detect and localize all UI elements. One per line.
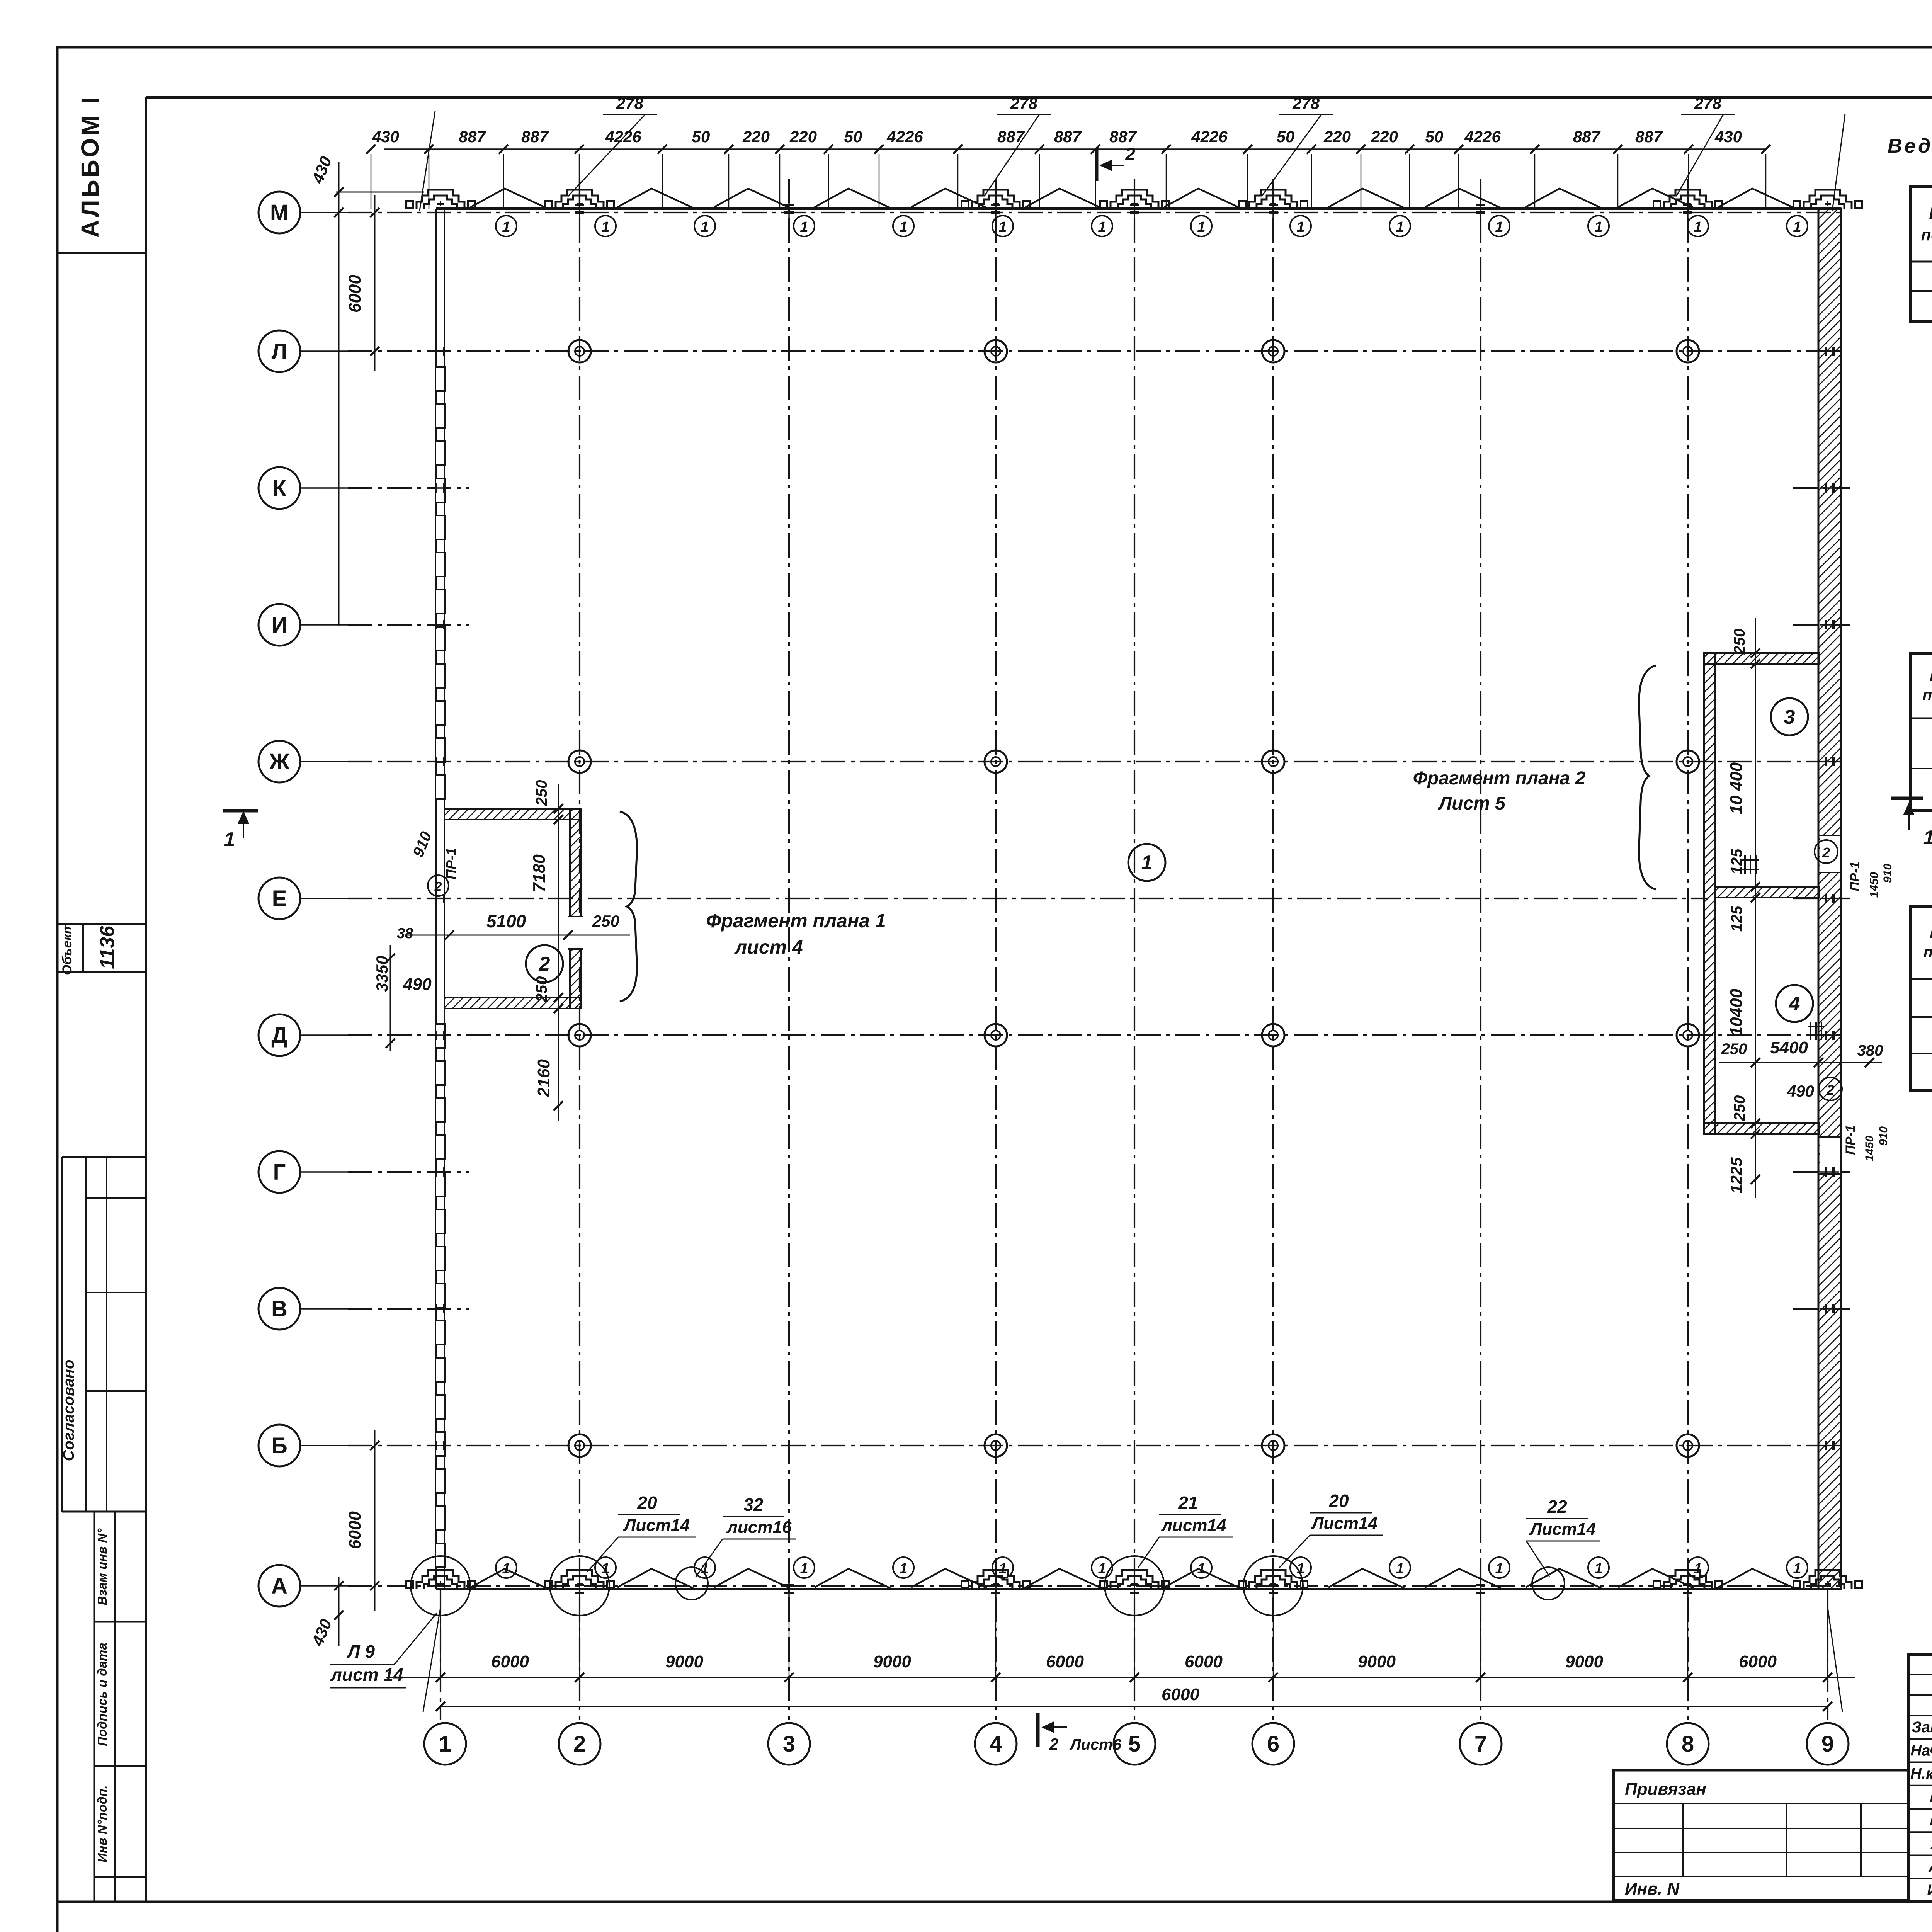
top dimension line bbox=[384, 148, 1766, 150]
room 3 mark bbox=[1771, 698, 1808, 735]
svg-text:1: 1 bbox=[1197, 1561, 1205, 1577]
axis Л line bbox=[300, 350, 348, 352]
svg-text:позиции: позиции bbox=[1923, 944, 1932, 961]
axis Д circle bbox=[259, 1014, 300, 1056]
bottom overall dimension bbox=[440, 1706, 1828, 1707]
sheet border bottom bbox=[57, 1901, 1932, 1903]
svg-text:1: 1 bbox=[224, 828, 235, 851]
right wall hatched bbox=[1818, 209, 1841, 1589]
svg-text:7180: 7180 bbox=[530, 854, 549, 892]
svg-text:887: 887 bbox=[459, 128, 486, 146]
svg-text:Г: Г bbox=[273, 1160, 286, 1185]
axis И circle bbox=[259, 604, 300, 646]
corner witness right bbox=[1832, 114, 1845, 211]
room 2 mark bbox=[526, 945, 563, 982]
column 6Ж bbox=[1262, 750, 1284, 773]
svg-text:Подпись и дата: Подпись и дата bbox=[95, 1643, 109, 1746]
svg-text:7: 7 bbox=[1475, 1731, 1487, 1757]
svg-text:лист16: лист16 bbox=[726, 1518, 792, 1537]
svg-text:20: 20 bbox=[637, 1493, 657, 1513]
column 6Д bbox=[1262, 1024, 1284, 1046]
svg-text:430: 430 bbox=[372, 128, 399, 146]
gate at column 4 bottom bbox=[972, 1570, 1020, 1589]
svg-text:4226: 4226 bbox=[886, 128, 923, 146]
svg-text:9000: 9000 bbox=[665, 1652, 703, 1671]
axis 2 circle bbox=[559, 1723, 600, 1765]
fragment 1 brace bbox=[620, 811, 637, 1002]
svg-text:220: 220 bbox=[789, 128, 817, 146]
svg-text:1: 1 bbox=[1098, 219, 1106, 235]
opening mark 1 bottom bbox=[1588, 1557, 1609, 1578]
section mark 1 right bbox=[1891, 797, 1923, 800]
room 2 walls bbox=[444, 809, 581, 820]
svg-text:ПР-1: ПР-1 bbox=[1848, 861, 1862, 891]
svg-text:50: 50 bbox=[1277, 128, 1295, 146]
axis Л circle bbox=[259, 330, 300, 372]
column 2Л bbox=[568, 340, 591, 362]
svg-text:И: И bbox=[271, 612, 287, 638]
svg-text:6000: 6000 bbox=[345, 275, 364, 313]
svg-text:278: 278 bbox=[1292, 94, 1320, 112]
svg-text:4226: 4226 bbox=[605, 128, 641, 146]
album box bbox=[57, 252, 146, 254]
sheet border top bbox=[57, 46, 1932, 49]
opening mark 1 bottom bbox=[1389, 1557, 1410, 1578]
room2 dim horizontal bbox=[406, 935, 630, 936]
top wall bbox=[436, 207, 1841, 210]
axis 8 circle bbox=[1667, 1723, 1709, 1765]
rooms 3-4 outer walls bbox=[1704, 653, 1715, 1134]
svg-text:38: 38 bbox=[397, 925, 413, 942]
gate at column 1 bottom bbox=[417, 1570, 464, 1589]
svg-text:Арх: Арх bbox=[1930, 1835, 1932, 1852]
svg-text:1: 1 bbox=[601, 1561, 609, 1577]
svg-text:1: 1 bbox=[439, 1731, 451, 1757]
svg-text:ПР-1: ПР-1 bbox=[443, 848, 459, 879]
svg-text:5: 5 bbox=[1128, 1731, 1141, 1757]
opening mark 1 top bbox=[1290, 216, 1311, 236]
svg-text:1: 1 bbox=[1793, 1561, 1801, 1577]
svg-text:ПР-1: ПР-1 bbox=[1843, 1125, 1858, 1155]
left dim 430 bottom bbox=[338, 1577, 340, 1646]
svg-text:10400: 10400 bbox=[1727, 988, 1746, 1036]
svg-text:Н.контр.: Н.контр. bbox=[1910, 1765, 1932, 1782]
svg-text:250: 250 bbox=[1731, 629, 1748, 655]
svg-text:380: 380 bbox=[1857, 1042, 1883, 1059]
title block main box bbox=[1909, 1654, 1932, 1902]
svg-text:Арх.: Арх. bbox=[1928, 1859, 1932, 1876]
svg-text:позиции: позиции bbox=[1923, 687, 1932, 704]
opening mark 1 bottom bbox=[595, 1557, 616, 1578]
svg-text:6000: 6000 bbox=[1046, 1652, 1084, 1671]
gate at column 2 bottom bbox=[556, 1570, 604, 1589]
svg-text:1: 1 bbox=[1396, 1561, 1404, 1577]
opening mark 1 top bbox=[1389, 216, 1410, 236]
svg-text:Объект: Объект bbox=[60, 922, 75, 975]
svg-text:1: 1 bbox=[1594, 219, 1602, 235]
svg-text:1: 1 bbox=[1594, 1561, 1602, 1577]
svg-text:220: 220 bbox=[1371, 128, 1398, 146]
opening mark 1 top bbox=[1092, 216, 1112, 236]
svg-text:1: 1 bbox=[998, 1561, 1007, 1577]
axis Г circle bbox=[259, 1151, 300, 1193]
svg-text:1136: 1136 bbox=[96, 925, 119, 969]
svg-text:9: 9 bbox=[1821, 1731, 1834, 1757]
axis В circle bbox=[259, 1288, 300, 1330]
axis Б line bbox=[300, 1445, 348, 1446]
svg-text:887: 887 bbox=[1573, 128, 1601, 146]
bottom wall bbox=[436, 1588, 1841, 1590]
svg-text:32: 32 bbox=[743, 1495, 764, 1515]
svg-text:250: 250 bbox=[533, 976, 550, 1003]
room 2 door opening bbox=[568, 917, 583, 949]
svg-text:Инв. N: Инв. N bbox=[1625, 1879, 1680, 1898]
column 4Ж bbox=[985, 750, 1007, 773]
axis 5 circle bbox=[1114, 1723, 1155, 1765]
annex box bbox=[1614, 1770, 1909, 1900]
section mark 2 top bbox=[1095, 148, 1099, 181]
axis E extended line bbox=[469, 898, 1708, 899]
svg-text:2: 2 bbox=[539, 953, 550, 975]
svg-text:278: 278 bbox=[1010, 94, 1038, 112]
column 2Д bbox=[568, 1024, 591, 1046]
svg-text:887: 887 bbox=[521, 128, 549, 146]
axis Е circle bbox=[259, 878, 300, 919]
svg-text:250: 250 bbox=[1731, 1095, 1748, 1122]
rooms 3-4 partition wall bbox=[1715, 887, 1819, 898]
opening mark 1 bottom bbox=[1191, 1557, 1212, 1578]
svg-text:Лист6: Лист6 bbox=[1069, 1736, 1122, 1753]
svg-text:1: 1 bbox=[1296, 219, 1304, 235]
svg-text:887: 887 bbox=[1054, 128, 1082, 146]
top wall door leaves bbox=[471, 189, 546, 208]
svg-text:Лист14: Лист14 bbox=[1529, 1520, 1596, 1539]
svg-text:А: А bbox=[271, 1573, 287, 1599]
svg-text:Фрагмент плана 1: Фрагмент плана 1 bbox=[706, 910, 886, 932]
opening mark 1 top bbox=[893, 216, 914, 236]
svg-text:2: 2 bbox=[1125, 144, 1135, 164]
svg-text:50: 50 bbox=[1425, 128, 1444, 146]
axis 3 circle bbox=[768, 1723, 810, 1765]
opening mark 1 top bbox=[794, 216, 815, 236]
approvals table bbox=[62, 1156, 146, 1158]
svg-text:1450: 1450 bbox=[1863, 1135, 1876, 1161]
svg-text:1: 1 bbox=[1495, 1561, 1503, 1577]
lintel tie symbols bbox=[1742, 859, 1759, 861]
svg-text:1: 1 bbox=[1396, 219, 1404, 235]
svg-text:1: 1 bbox=[1694, 1561, 1702, 1577]
svg-text:1225: 1225 bbox=[1727, 1157, 1745, 1194]
svg-text:1: 1 bbox=[601, 219, 609, 235]
left dim 430 top bbox=[338, 162, 340, 626]
opening mark 1 top bbox=[1588, 216, 1609, 236]
opening mark 1 bottom bbox=[992, 1557, 1013, 1578]
svg-text:910: 910 bbox=[1881, 864, 1894, 883]
bottom witness slants bbox=[423, 1607, 440, 1712]
gate at column 6 bottom bbox=[1249, 1570, 1297, 1589]
svg-text:21: 21 bbox=[1178, 1493, 1198, 1513]
svg-text:220: 220 bbox=[742, 128, 770, 146]
gate at column 5 top bbox=[1111, 190, 1158, 209]
gate at column 8 bottom bbox=[1664, 1570, 1712, 1589]
gate at column 9 top bbox=[1804, 190, 1852, 209]
svg-text:К: К bbox=[272, 476, 286, 501]
gate at column 4 top bbox=[972, 190, 1020, 209]
svg-text:6000: 6000 bbox=[1185, 1652, 1223, 1671]
column 4Б bbox=[985, 1434, 1007, 1457]
svg-text:ГАП: ГАП bbox=[1930, 1812, 1932, 1829]
svg-text:2: 2 bbox=[1826, 1082, 1834, 1098]
column 6Л bbox=[1262, 340, 1284, 362]
svg-text:1: 1 bbox=[800, 1561, 808, 1577]
svg-text:В: В bbox=[271, 1296, 287, 1321]
column 4Л bbox=[985, 340, 1007, 362]
svg-text:Д: Д bbox=[271, 1023, 287, 1048]
svg-text:1: 1 bbox=[800, 219, 808, 235]
left wall bbox=[435, 209, 437, 1589]
svg-text:9000: 9000 bbox=[1565, 1652, 1603, 1671]
sheet border left bbox=[56, 46, 59, 1932]
svg-text:1: 1 bbox=[701, 219, 709, 235]
axis 9 circle bbox=[1807, 1723, 1849, 1765]
stamp side labels box bbox=[94, 1512, 95, 1902]
svg-text:1: 1 bbox=[998, 219, 1007, 235]
svg-text:430: 430 bbox=[1714, 128, 1742, 146]
svg-text:1: 1 bbox=[1793, 219, 1801, 235]
svg-text:Ведомость проемов ворот и двер: Ведомость проемов ворот и дверей bbox=[1888, 135, 1932, 157]
rooms34 dim horizontal bbox=[1719, 1062, 1882, 1063]
svg-text:Привязан: Привязан bbox=[1625, 1780, 1706, 1799]
svg-text:4: 4 bbox=[1789, 993, 1800, 1015]
left wall panels bbox=[435, 367, 445, 391]
svg-text:лист 4: лист 4 bbox=[734, 936, 803, 958]
opening mark 1 top bbox=[1191, 216, 1212, 236]
svg-text:8: 8 bbox=[1682, 1731, 1694, 1757]
svg-text:1: 1 bbox=[1197, 219, 1205, 235]
svg-text:Марка: Марка bbox=[1929, 203, 1932, 223]
svg-text:490: 490 bbox=[1787, 1082, 1814, 1100]
door mark 2 right bottom bbox=[1819, 1077, 1842, 1100]
svg-text:6000: 6000 bbox=[491, 1652, 529, 1671]
room 1 mark bbox=[1128, 844, 1165, 881]
section mark 2 bottom bbox=[1036, 1713, 1040, 1747]
gate at column 5 bottom bbox=[1111, 1570, 1158, 1589]
opening mark 1 bottom bbox=[794, 1557, 815, 1578]
svg-text:1: 1 bbox=[502, 219, 510, 235]
corner witness left bbox=[420, 111, 435, 211]
svg-text:Б: Б bbox=[271, 1433, 287, 1458]
svg-text:6000: 6000 bbox=[1162, 1685, 1199, 1704]
axis Д line bbox=[300, 1034, 348, 1036]
svg-text:1: 1 bbox=[1141, 852, 1153, 874]
svg-text:1: 1 bbox=[502, 1561, 510, 1577]
bottom dimension line segments bbox=[386, 1677, 1855, 1678]
svg-text:Л: Л bbox=[272, 339, 287, 364]
svg-text:2: 2 bbox=[1822, 845, 1830, 861]
svg-text:1: 1 bbox=[1495, 219, 1503, 235]
column 8Ж bbox=[1677, 750, 1699, 773]
title block thin rows bbox=[1909, 1674, 1932, 1675]
column 2Б bbox=[568, 1434, 591, 1457]
title block name rows bbox=[1909, 1738, 1932, 1740]
opening mark 1 top bbox=[1787, 216, 1808, 236]
svg-text:6: 6 bbox=[1267, 1731, 1279, 1757]
axis А line bbox=[300, 1585, 348, 1587]
room2 dim vertical line bbox=[558, 784, 559, 1121]
right wall door opening 2 bbox=[1820, 1137, 1840, 1174]
room 4 mark bbox=[1776, 985, 1813, 1022]
opening mark 1 bottom bbox=[893, 1557, 914, 1578]
axis 4 circle bbox=[975, 1723, 1017, 1765]
axis Ж circle bbox=[259, 741, 300, 782]
column 8Б bbox=[1677, 1434, 1699, 1457]
opening mark 1 bottom bbox=[1687, 1557, 1708, 1578]
svg-text:125: 125 bbox=[1728, 906, 1745, 932]
axis Б circle bbox=[259, 1425, 300, 1466]
svg-text:6000: 6000 bbox=[1739, 1652, 1777, 1671]
svg-text:2160: 2160 bbox=[534, 1059, 553, 1097]
column 8Л bbox=[1677, 340, 1699, 362]
section mark 1 left bbox=[223, 809, 258, 813]
axis Е line bbox=[300, 898, 348, 899]
svg-text:лист 14: лист 14 bbox=[330, 1665, 403, 1685]
svg-text:Марка: Марка bbox=[1930, 666, 1932, 685]
svg-text:АЛЬБОМ I: АЛЬБОМ I bbox=[76, 95, 104, 238]
rooms 3-4 bottom wall bbox=[1704, 1123, 1819, 1134]
svg-text:ГАП: ГАП bbox=[1930, 1789, 1932, 1806]
gate at column 9 bottom bbox=[1804, 1570, 1852, 1589]
svg-text:Инв N°подп.: Инв N°подп. bbox=[95, 1785, 109, 1862]
bottom wall door leaves bbox=[471, 1569, 546, 1588]
opening mark 1 bottom bbox=[694, 1557, 715, 1578]
gate at column 1 top bbox=[417, 190, 464, 209]
svg-text:4: 4 bbox=[990, 1731, 1002, 1757]
svg-text:Е: Е bbox=[272, 886, 287, 911]
right wall door opening 1 bbox=[1820, 835, 1840, 872]
svg-text:Взам инв N°: Взам инв N° bbox=[95, 1528, 109, 1605]
opening mark 1 top bbox=[694, 216, 715, 236]
column 1 axis stub bbox=[440, 1589, 441, 1720]
svg-text:1: 1 bbox=[1694, 219, 1702, 235]
axis Г line bbox=[300, 1171, 348, 1173]
svg-text:Марка: Марка bbox=[1930, 923, 1932, 942]
left dim 6000 top bbox=[374, 195, 376, 371]
svg-text:887: 887 bbox=[1635, 128, 1663, 146]
svg-text:Лист14: Лист14 bbox=[623, 1516, 690, 1535]
svg-text:3: 3 bbox=[1784, 706, 1795, 728]
axis М circle bbox=[259, 192, 300, 233]
gate at column 6 top bbox=[1249, 190, 1297, 209]
svg-text:9000: 9000 bbox=[873, 1652, 911, 1671]
inner frame left bbox=[145, 97, 147, 1902]
svg-text:20: 20 bbox=[1328, 1491, 1349, 1511]
svg-text:125: 125 bbox=[1728, 849, 1745, 874]
opening mark 1 bottom bbox=[1489, 1557, 1510, 1578]
axis 6 circle bbox=[1252, 1723, 1294, 1765]
svg-text:Фрагмент плана 2: Фрагмент плана 2 bbox=[1413, 768, 1586, 789]
column 9 axis stub bbox=[1827, 1589, 1828, 1720]
svg-text:910: 910 bbox=[1877, 1126, 1890, 1146]
small detail circle left bbox=[675, 1567, 708, 1600]
svg-text:Согласовано: Согласовано bbox=[60, 1360, 77, 1461]
svg-text:лист14: лист14 bbox=[1161, 1516, 1226, 1535]
table 4 box bbox=[1911, 907, 1932, 1091]
axis К line bbox=[300, 487, 348, 489]
opening mark 1 bottom bbox=[1787, 1557, 1808, 1578]
svg-text:887: 887 bbox=[1109, 128, 1137, 146]
svg-text:2: 2 bbox=[1049, 1735, 1058, 1753]
svg-text:1: 1 bbox=[1098, 1561, 1106, 1577]
small detail circle right bbox=[1532, 1567, 1565, 1600]
column axis lines bbox=[579, 179, 580, 1720]
door mark 2 small left bbox=[428, 875, 449, 896]
svg-text:4226: 4226 bbox=[1191, 128, 1228, 146]
opening mark 1 top bbox=[595, 216, 616, 236]
svg-text:5100: 5100 bbox=[486, 911, 526, 931]
svg-text:490: 490 bbox=[403, 975, 432, 994]
column 6Б bbox=[1262, 1434, 1284, 1457]
opening mark 1 top bbox=[992, 216, 1013, 236]
gate at column 8 top bbox=[1664, 190, 1712, 209]
axis К circle bbox=[259, 467, 300, 509]
svg-text:позиции: позиции bbox=[1921, 226, 1932, 244]
opening mark 1 top bbox=[496, 216, 517, 236]
object box bbox=[57, 923, 146, 925]
gate at column 2 top bbox=[556, 190, 604, 209]
svg-text:278: 278 bbox=[616, 94, 644, 112]
svg-text:Л 9: Л 9 bbox=[347, 1641, 375, 1662]
axis 7 circle bbox=[1460, 1723, 1502, 1765]
opening mark 1 bottom bbox=[1092, 1557, 1112, 1578]
svg-text:1: 1 bbox=[899, 1561, 907, 1577]
svg-text:Инж.: Инж. bbox=[1927, 1882, 1932, 1899]
table 1 box bbox=[1911, 186, 1932, 322]
svg-text:2: 2 bbox=[434, 879, 442, 894]
svg-text:50: 50 bbox=[844, 128, 862, 146]
axis Ж line bbox=[300, 761, 348, 762]
opening mark 1 bottom bbox=[1290, 1557, 1311, 1578]
svg-text:М: М bbox=[270, 200, 289, 225]
door mark 2 right top bbox=[1815, 840, 1838, 863]
svg-text:1: 1 bbox=[899, 219, 907, 235]
inner frame top bbox=[146, 96, 1932, 99]
column 4Д bbox=[985, 1024, 1007, 1046]
svg-text:1: 1 bbox=[1923, 827, 1932, 849]
axis М line bbox=[300, 212, 348, 213]
svg-text:10 400: 10 400 bbox=[1727, 762, 1746, 814]
opening mark 1 bottom bbox=[496, 1557, 517, 1578]
svg-text:4226: 4226 bbox=[1464, 128, 1501, 146]
fragment 2 brace bbox=[1639, 665, 1656, 889]
svg-text:1450: 1450 bbox=[1868, 872, 1881, 898]
axis-wall tie marks bbox=[431, 350, 449, 352]
svg-text:50: 50 bbox=[692, 128, 710, 146]
svg-text:22: 22 bbox=[1547, 1497, 1567, 1517]
svg-text:Лист 5: Лист 5 bbox=[1438, 793, 1506, 814]
column 2Ж bbox=[568, 750, 591, 773]
opening mark 1 top bbox=[1687, 216, 1708, 236]
opening mark 1 top bbox=[1489, 216, 1510, 236]
column 8Д bbox=[1677, 1024, 1699, 1046]
svg-text:Ж: Ж bbox=[269, 749, 290, 774]
axis 1 circle bbox=[424, 1723, 466, 1765]
detail circles on bottom wall bbox=[411, 1556, 470, 1616]
svg-text:220: 220 bbox=[1323, 128, 1351, 146]
axis А circle bbox=[259, 1565, 300, 1607]
svg-text:3: 3 bbox=[783, 1731, 795, 1757]
svg-text:6000: 6000 bbox=[345, 1511, 364, 1549]
axis И line bbox=[300, 624, 348, 626]
